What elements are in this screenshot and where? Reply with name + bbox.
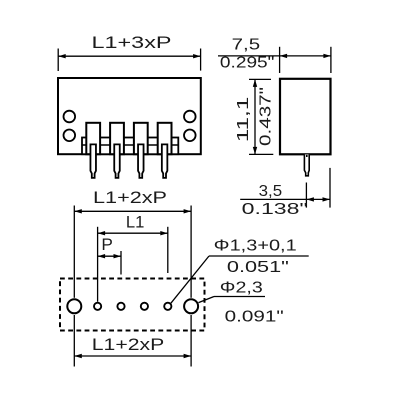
svg-text:L1: L1 bbox=[126, 212, 145, 231]
drill hole large right bbox=[184, 299, 198, 313]
svg-text:0.295": 0.295" bbox=[220, 55, 275, 72]
flange hole top-right bbox=[184, 111, 196, 123]
svg-text:L1+2xP: L1+2xP bbox=[92, 335, 165, 354]
svg-text:0.051": 0.051" bbox=[227, 259, 289, 276]
dimension 3,5 bbox=[240, 168, 330, 218]
svg-text:L1+2xP: L1+2xP bbox=[93, 188, 167, 207]
contact cage 3 bbox=[134, 123, 148, 154]
flange hole bottom-right bbox=[184, 130, 196, 142]
drill hole small 4 bbox=[164, 303, 171, 310]
dimension 7,5 bbox=[218, 37, 331, 74]
dimension L1+3xP bbox=[58, 33, 200, 71]
footprint outline (dashed) bbox=[60, 279, 205, 331]
drill hole large left bbox=[67, 299, 81, 313]
drill hole small 3 bbox=[141, 303, 148, 310]
contact cage 2 bbox=[110, 123, 124, 154]
svg-text:0.091": 0.091" bbox=[225, 308, 284, 325]
svg-text:0.437": 0.437" bbox=[258, 87, 275, 146]
flange hole bottom-left bbox=[64, 130, 76, 142]
contact rail bbox=[82, 138, 178, 155]
dimension L1+2xP bottom bbox=[74, 315, 191, 367]
svg-text:P: P bbox=[101, 235, 113, 254]
solder pin 1 bbox=[90, 144, 96, 177]
svg-text:11,1: 11,1 bbox=[235, 97, 252, 143]
dimension 11,1 / 0.437" bbox=[235, 79, 275, 154]
flange hole top-left bbox=[64, 111, 76, 123]
dimension L1 bbox=[98, 212, 168, 301]
solder pin 2 bbox=[114, 144, 120, 177]
front view body bbox=[58, 78, 201, 154]
solder pin 4 bbox=[162, 144, 168, 177]
side view pin bbox=[304, 154, 309, 175]
svg-text:0.138": 0.138" bbox=[242, 201, 308, 218]
label hole diameter 1,3 bbox=[171, 238, 309, 304]
svg-text:3,5: 3,5 bbox=[259, 183, 283, 200]
contact cage 4 bbox=[158, 123, 172, 154]
side view body bbox=[280, 79, 331, 155]
solder pin 3 bbox=[138, 144, 144, 177]
svg-text:Φ1,3+0,1: Φ1,3+0,1 bbox=[214, 238, 297, 255]
svg-text:7,5: 7,5 bbox=[232, 37, 261, 54]
drill hole small 2 bbox=[117, 303, 124, 310]
drill hole small 1 bbox=[94, 303, 101, 310]
label hole diameter 2,3 bbox=[199, 279, 284, 325]
svg-text:L1+3xP: L1+3xP bbox=[92, 33, 172, 52]
contact cage 1 bbox=[86, 123, 100, 154]
dimension P bbox=[98, 235, 121, 275]
svg-text:Φ2,3: Φ2,3 bbox=[220, 279, 263, 296]
dimension L1+2xP top bbox=[74, 188, 191, 298]
